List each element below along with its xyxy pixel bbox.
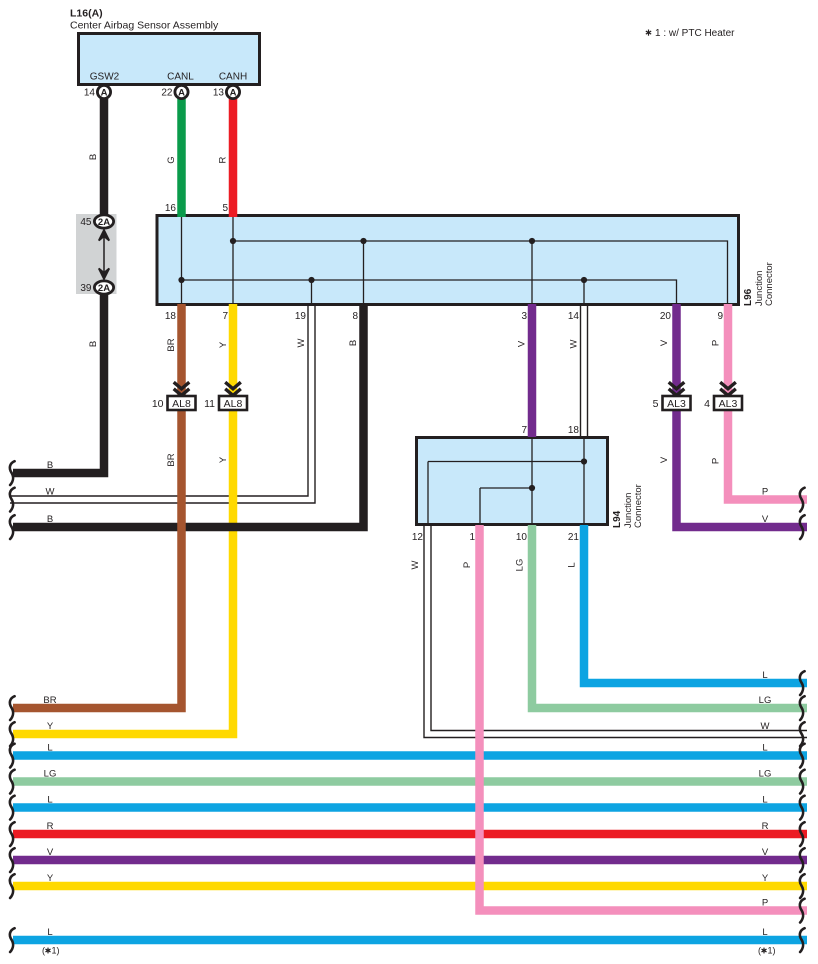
svg-text:BR: BR: [166, 338, 177, 351]
svg-text:AL3: AL3: [719, 398, 738, 410]
L94 bottom pin numbers: [412, 532, 580, 543]
svg-text:LG: LG: [759, 769, 772, 780]
left page squiggle L 755.5: [10, 744, 15, 768]
pin 14 circle A: [84, 85, 111, 98]
svg-text:R: R: [762, 821, 769, 832]
wire Y AL8-11 to left edge: [13, 410, 233, 734]
svg-text:Y: Y: [218, 456, 229, 463]
svg-text:P: P: [711, 340, 722, 346]
L96 top pin numbers: [165, 203, 229, 214]
svg-text:Y: Y: [47, 873, 54, 884]
right page squiggle L 940: [800, 928, 805, 952]
wire label BR lower: [166, 453, 177, 466]
wire Y row: [13, 882, 807, 891]
svg-text:12: 12: [412, 532, 424, 543]
connector 2A pin45: [80, 215, 113, 228]
splice AL8-10 box: [152, 396, 196, 410]
left page squiggle BR 708: [10, 696, 15, 720]
wire label W pin14: [569, 339, 580, 348]
right page squiggle V 527: [800, 515, 805, 539]
L96 internal pin columns: [182, 217, 585, 303]
connector L16(A) title: [70, 8, 219, 32]
svg-text:L: L: [47, 795, 52, 806]
svg-text:21: 21: [568, 532, 580, 543]
right label W row 734: [761, 721, 770, 732]
connector 2A pin39: [80, 281, 113, 294]
left page squiggle L 807.5: [10, 796, 15, 820]
wire W L96 pin14 to L94 pin18: [581, 304, 588, 437]
pin 22 circle A: [161, 85, 188, 98]
svg-text:1: 1: [469, 532, 475, 543]
svg-text:W: W: [296, 338, 307, 347]
wire label V pin20: [659, 339, 670, 346]
svg-text:L16(A): L16(A): [70, 8, 103, 20]
right page squiggle P 499.5: [800, 488, 805, 512]
wire label B pin8: [348, 340, 359, 346]
right label LG row 781.5: [759, 769, 772, 780]
svg-text:AL3: AL3: [667, 398, 686, 410]
right page squiggle P 910.5: [800, 899, 805, 923]
svg-text:4: 4: [704, 398, 710, 410]
svg-text:11: 11: [204, 398, 215, 410]
left label LG row 781.5: [44, 769, 57, 780]
splice arrow AL8-11: [225, 382, 241, 395]
wire LG L94 pin10 to right edge: [532, 525, 807, 708]
junction connector L96 label: [743, 262, 775, 306]
left label B row 527: [47, 514, 53, 525]
L94 internal bus lower: [480, 488, 532, 523]
svg-text:Connector: Connector: [764, 262, 775, 306]
right label P row 910.5: [762, 898, 768, 909]
svg-text:P: P: [762, 898, 768, 909]
svg-text:BR: BR: [43, 695, 56, 706]
svg-text:V: V: [762, 514, 769, 525]
svg-text:19: 19: [295, 311, 307, 322]
L96 bottom pin numbers: [165, 311, 724, 322]
svg-text:13: 13: [213, 88, 225, 99]
svg-text:LG: LG: [515, 559, 526, 572]
svg-text:1 : w/ PTC Heater: 1 : w/ PTC Heater: [655, 28, 735, 39]
wire label Y upper: [218, 341, 229, 348]
left label R row 834: [47, 821, 54, 832]
svg-text:39: 39: [80, 283, 92, 294]
svg-text:7: 7: [222, 311, 228, 322]
svg-text:10: 10: [516, 532, 528, 543]
wire W L96 pin19 to left edge: [10, 304, 315, 503]
wire L row2: [13, 803, 807, 812]
left page squiggle V 860: [10, 848, 15, 872]
svg-text:14: 14: [84, 88, 96, 99]
svg-text:5: 5: [222, 203, 228, 214]
svg-text:AL8: AL8: [224, 398, 243, 410]
left page squiggle R 834: [10, 822, 15, 846]
svg-text:W: W: [569, 339, 580, 348]
svg-text:L: L: [762, 927, 767, 938]
left page squiggle Y 734: [10, 722, 15, 746]
wire label V pin3: [517, 340, 528, 347]
splice AL3-4 box: [704, 396, 742, 410]
svg-text:B: B: [348, 340, 359, 346]
left label V row 860: [47, 847, 54, 858]
svg-text:7: 7: [521, 425, 527, 436]
svg-text:P: P: [762, 487, 768, 498]
svg-text:8: 8: [352, 311, 358, 322]
svg-text:R: R: [47, 821, 54, 832]
wire B L16 pin14 to 2A: [100, 98, 109, 216]
wire V L96 pin3 to L94 pin7: [528, 304, 537, 437]
junction connector L94 label: [612, 484, 644, 528]
svg-text:1): 1): [768, 946, 776, 956]
right page squiggle R 834: [800, 822, 805, 846]
svg-text:20: 20: [660, 311, 672, 322]
svg-text:2A: 2A: [98, 283, 110, 294]
left label (*1): [42, 946, 60, 956]
wire label P below AL3-4: [711, 458, 722, 464]
svg-text:10: 10: [152, 398, 164, 410]
svg-text:G: G: [166, 156, 177, 163]
svg-text:LG: LG: [759, 695, 772, 706]
svg-text:Y: Y: [762, 873, 769, 884]
left page squiggle B 527: [10, 515, 15, 539]
svg-text:BR: BR: [166, 453, 177, 466]
wire label W pin12: [410, 560, 421, 569]
L94 top pin numbers: [521, 425, 579, 436]
svg-text:B: B: [47, 514, 53, 525]
right page squiggle Y 886: [800, 874, 805, 898]
svg-text:W: W: [46, 487, 55, 498]
right label L row 683: [762, 670, 767, 681]
right page squiggle L 807.5: [800, 796, 805, 820]
left page squiggle L 940: [10, 928, 15, 952]
splice arrow AL8-10: [174, 382, 190, 395]
right page squiggle L 683: [800, 671, 805, 695]
wire V AL3-5 to right edge: [677, 410, 808, 527]
left label Y row 734: [47, 721, 54, 732]
svg-text:Center Airbag Sensor Assembly: Center Airbag Sensor Assembly: [70, 20, 219, 32]
wire G L16 pin22 CANL to L96 pin16: [177, 98, 186, 217]
pin 13 circle A: [213, 85, 240, 98]
left label L row 807.5: [47, 795, 52, 806]
gray connector block 2A: [76, 214, 117, 294]
right page squiggle LG 708: [800, 696, 805, 720]
left page squiggle Y 886: [10, 874, 15, 898]
svg-text:A: A: [101, 88, 108, 99]
svg-text:22: 22: [161, 88, 173, 99]
wire W L94 pin12 to right edge: [424, 525, 807, 738]
L94 internal pin columns: [532, 439, 584, 523]
svg-text:L: L: [762, 670, 767, 681]
splice arrow AL3-5: [669, 382, 685, 395]
svg-text:V: V: [517, 340, 528, 347]
wire BR L96 pin18 to AL8-10: [177, 304, 186, 396]
svg-text:L94: L94: [612, 510, 623, 528]
double arrow between 2A connectors: [99, 230, 109, 279]
wire BR AL8-10 to left edge: [13, 410, 182, 708]
splice AL3-5 box: [653, 396, 691, 410]
junction connector L94 box: [417, 438, 608, 525]
right label R row 834: [762, 821, 769, 832]
svg-text:L: L: [762, 795, 767, 806]
svg-text:V: V: [762, 847, 769, 858]
wire B battery row from pin14: [13, 294, 104, 473]
L94 junction dots: [529, 458, 587, 491]
right label V row 860: [762, 847, 769, 858]
svg-text:Connector: Connector: [633, 484, 644, 528]
wire label L pin21: [567, 562, 578, 567]
right label L row 940: [762, 927, 767, 938]
left label Y row 886: [47, 873, 54, 884]
svg-text:P: P: [462, 562, 473, 568]
svg-text:5: 5: [653, 398, 659, 410]
wire R row: [13, 830, 807, 839]
svg-text:W: W: [761, 721, 770, 732]
svg-text:L: L: [567, 562, 578, 567]
right label V row 527: [762, 514, 769, 525]
svg-text:16: 16: [165, 203, 177, 214]
svg-text:CANL: CANL: [167, 72, 194, 83]
svg-text:A: A: [178, 88, 185, 99]
right label L row 807.5: [762, 795, 767, 806]
left label L row 940: [47, 927, 52, 938]
svg-text:R: R: [218, 156, 229, 163]
svg-text:1): 1): [52, 946, 60, 956]
wire L row1: [13, 751, 807, 760]
svg-text:45: 45: [80, 217, 92, 228]
splice arrow AL3-4: [720, 382, 736, 395]
right label P row 499.5: [762, 487, 768, 498]
svg-text:(: (: [42, 946, 45, 956]
svg-text:14: 14: [568, 311, 580, 322]
wire label B upper: [88, 154, 99, 160]
wire L L94 pin21 to right edge: [584, 525, 807, 683]
svg-text:CANH: CANH: [219, 72, 247, 83]
svg-text:W: W: [410, 560, 421, 569]
left label L row 755.5: [47, 743, 52, 754]
left page squiggle LG 781.5: [10, 770, 15, 794]
svg-text:V: V: [659, 339, 670, 346]
wire label Y lower: [218, 456, 229, 463]
svg-text:AL8: AL8: [172, 398, 191, 410]
svg-text:2A: 2A: [98, 217, 110, 228]
left label W row 499.5: [46, 487, 55, 498]
svg-text:V: V: [659, 456, 670, 463]
L94 internal bus upper: [428, 462, 584, 524]
wire label G: [166, 156, 177, 163]
L96 internal bus lower: [182, 280, 677, 303]
wire B left edge row to L96 pin8: [13, 304, 364, 527]
wire P AL3-4 to right edge: [728, 410, 807, 500]
wire P L94 pin1 to right edge: [480, 525, 808, 911]
svg-text:18: 18: [568, 425, 580, 436]
right page squiggle LG 781.5: [800, 770, 805, 794]
wire V L96 pin20 to AL3-5: [672, 304, 681, 396]
svg-text:B: B: [47, 460, 53, 471]
svg-text:L: L: [762, 743, 767, 754]
right label LG row 708: [759, 695, 772, 706]
svg-text:(: (: [758, 946, 761, 956]
right page squiggle L 755.5: [800, 744, 805, 768]
svg-text:P: P: [711, 458, 722, 464]
right page squiggle V 860: [800, 848, 805, 872]
svg-text:GSW2: GSW2: [90, 72, 120, 83]
right label L row 755.5: [762, 743, 767, 754]
svg-text:B: B: [88, 154, 99, 160]
svg-text:L96: L96: [743, 288, 754, 306]
left label BR row 708: [43, 695, 56, 706]
splice AL8-11 box: [204, 396, 247, 410]
wire label V below AL3-5: [659, 456, 670, 463]
wire label W pin19: [296, 338, 307, 347]
svg-text:L: L: [47, 743, 52, 754]
component box L16(A) Center Airbag Sensor Assembly: [79, 34, 260, 85]
L96 internal bus upper: [233, 241, 728, 303]
svg-text:9: 9: [717, 311, 723, 322]
svg-text:Y: Y: [47, 721, 54, 732]
wire label BR upper: [166, 338, 177, 351]
junction connector L96 box: [157, 216, 739, 305]
left page squiggle B 473: [10, 461, 15, 485]
left label B row 473: [47, 460, 53, 471]
svg-text:LG: LG: [44, 769, 57, 780]
svg-text:B: B: [88, 341, 99, 347]
wire P L96 pin9 to AL3-4: [724, 304, 733, 396]
right label (*1): [758, 946, 776, 956]
svg-text:3: 3: [521, 311, 527, 322]
wire L row3 (*1): [13, 936, 807, 945]
wire label P pin1: [462, 562, 473, 568]
right label Y row 886: [762, 873, 769, 884]
svg-text:L: L: [47, 927, 52, 938]
left page squiggle W 499.5: [10, 488, 15, 512]
right page squiggle W 734: [800, 722, 805, 746]
svg-text:A: A: [230, 88, 237, 99]
note w/ PTC Heater: [646, 28, 735, 39]
wire label B mid: [88, 341, 99, 347]
svg-text:V: V: [47, 847, 54, 858]
svg-text:18: 18: [165, 311, 177, 322]
wire label R: [218, 156, 229, 163]
wire V row: [13, 856, 807, 865]
L96 junction dots: [178, 238, 587, 283]
wire label P pin9: [711, 340, 722, 346]
svg-text:Y: Y: [218, 341, 229, 348]
wire LG row: [13, 777, 807, 786]
wire R L16 pin13 CANH to L96 pin5: [229, 98, 238, 217]
wire Y L96 pin7 to AL8-11: [229, 304, 238, 396]
wire label LG pin10: [515, 559, 526, 572]
